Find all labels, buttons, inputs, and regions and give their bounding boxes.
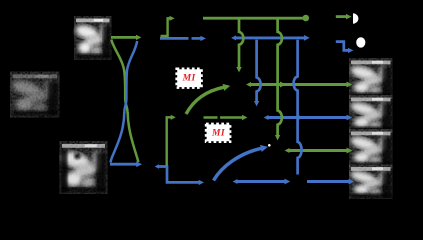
svg-text:MI: MI xyxy=(182,72,196,83)
svg-text:MI: MI xyxy=(211,127,225,138)
